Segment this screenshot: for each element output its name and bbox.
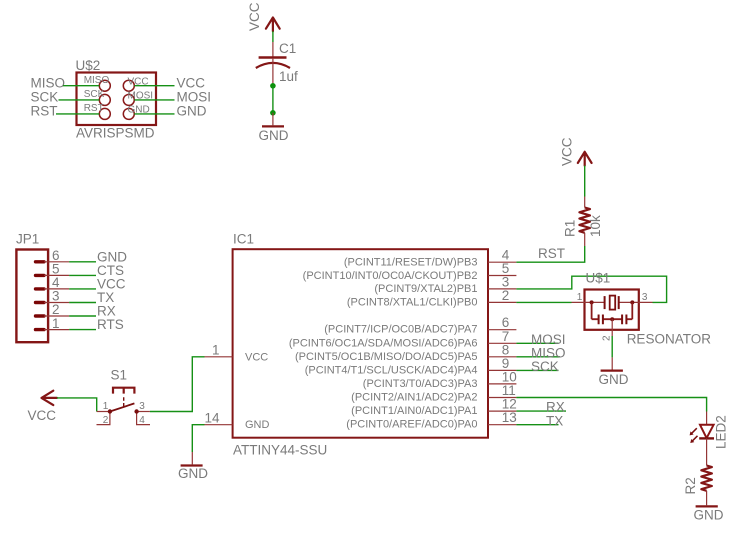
U$2 pin circle SCK	[99, 94, 110, 105]
svg-text:AVRISPSMD: AVRISPSMD	[76, 126, 155, 141]
svg-text:3: 3	[642, 292, 648, 303]
wire VCC to R1	[584, 166, 586, 197]
svg-text:1: 1	[577, 292, 583, 303]
supply symbol VCC (left arrow at S1)	[42, 391, 57, 405]
JP1 pad pin 3	[36, 301, 45, 304]
svg-text:R2: R2	[683, 477, 698, 494]
capacitor C1 top plate	[259, 56, 287, 58]
JP1 pin line 3	[44, 302, 69, 304]
IC1 pin 10 stub PA3	[488, 383, 516, 385]
svg-text:TX: TX	[546, 413, 563, 428]
svg-text:(PCINT0/AREF/ADC0)PA0: (PCINT0/AREF/ADC0)PA0	[346, 419, 477, 431]
wire VCC to C1	[272, 31, 274, 42]
svg-text:RST: RST	[84, 103, 104, 114]
JP1 pad pin 5	[36, 274, 45, 277]
junction dot	[270, 83, 276, 89]
svg-text:(PCINT10/INT0/OC0A/CKOUT)PB2: (PCINT10/INT0/OC0A/CKOUT)PB2	[303, 270, 478, 282]
svg-text:RESONATOR: RESONATOR	[627, 332, 712, 347]
JP1 pad pin 6	[36, 260, 45, 263]
wire JP1-1 to RTS	[69, 329, 96, 331]
svg-text:C1: C1	[279, 41, 296, 56]
svg-text:VCC: VCC	[560, 137, 575, 166]
IC1 pin 5 stub PB2	[488, 275, 516, 277]
svg-text:RTS: RTS	[97, 317, 124, 332]
IC1 pin 3 stub PB1	[488, 288, 516, 290]
LED2 pin top	[706, 412, 708, 425]
S1 blade	[110, 403, 134, 411]
svg-text:VCC: VCC	[245, 351, 268, 363]
svg-text:1: 1	[52, 316, 60, 331]
S1 junction dot pin1	[108, 409, 112, 413]
svg-text:SCK: SCK	[31, 90, 59, 105]
resistor R1 pin bottom	[584, 233, 586, 246]
svg-text:(PCINT1/AIN0/ADC1)PA1: (PCINT1/AIN0/ADC1)PA1	[351, 405, 477, 417]
supply symbol VCC (above C1)	[266, 18, 280, 32]
connector U$2 AVRISPSMD box	[77, 73, 157, 126]
LED2 pin bottom	[706, 438, 708, 465]
wire pin13 to TX	[516, 424, 558, 426]
ground symbol GND (below R2)	[696, 505, 718, 507]
S1 pin 2 L stub	[97, 412, 110, 425]
svg-text:U$2: U$2	[76, 58, 101, 73]
ground symbol pin	[272, 113, 274, 126]
wire pin9 to SCK	[516, 369, 558, 371]
capacitor C1 pin bottom	[272, 58, 274, 86]
IC1 pin 4 stub PB3	[488, 261, 516, 263]
svg-text:ATTINY44-SSU: ATTINY44-SSU	[233, 443, 327, 458]
IC1 pin 13 stub PA0	[488, 424, 516, 426]
JP1 pad pin 4	[36, 287, 45, 290]
wire C1 to GND	[272, 86, 274, 113]
wire PB0 to U$1 pin1	[516, 301, 571, 303]
resistor R2 pin bottom	[706, 491, 708, 506]
JP1 pin line 5	[44, 274, 69, 276]
JP1 pad pin 1	[36, 328, 45, 331]
svg-text:GND: GND	[245, 419, 270, 431]
wire pin7 to MOSI	[516, 342, 558, 344]
junction dot	[270, 110, 276, 116]
JP1 pin line 2	[44, 315, 69, 317]
svg-text:4: 4	[139, 415, 145, 426]
U$2 pin circle MISO	[99, 80, 110, 91]
svg-text:U$1: U$1	[586, 271, 611, 286]
ground symbol GND (below C1)	[262, 125, 284, 127]
S1 pin 4 L stub	[137, 412, 150, 425]
wire S1 pin3 to IC1 pin1	[150, 357, 205, 412]
wire JP1-5 to CTS	[69, 274, 96, 276]
wire U$1 pin2 to GND	[611, 336, 613, 357]
S1 pin 1 stub	[97, 411, 110, 413]
U$1 pin 2 line	[611, 319, 613, 336]
svg-text:(PCINT8/XTAL1/CLKI)PB0: (PCINT8/XTAL1/CLKI)PB0	[347, 297, 478, 309]
svg-text:R1: R1	[563, 220, 578, 237]
svg-text:2: 2	[602, 335, 613, 341]
left capacitor leads	[592, 318, 613, 320]
IC1 pin 1 VCC stub	[205, 356, 233, 358]
wire R1 to RST net	[516, 246, 584, 262]
U$2 pin circle RST	[99, 108, 110, 119]
svg-text:(PCINT9/XTAL2)PB1: (PCINT9/XTAL2)PB1	[374, 283, 477, 295]
svg-text:(PCINT7/ICP/OC0B/ADC7)PA7: (PCINT7/ICP/OC0B/ADC7)PA7	[324, 324, 477, 336]
wire RST to U$2	[56, 113, 99, 115]
wire JP1-6 to GND	[69, 261, 96, 263]
left capacitor plates	[599, 315, 603, 325]
wire pin11 to LED2	[516, 398, 706, 412]
LED2 emission arrow 1	[692, 428, 697, 433]
IC1 pin 14 GND stub	[205, 424, 233, 426]
svg-text:14: 14	[204, 411, 220, 426]
svg-text:JP1: JP1	[16, 232, 39, 247]
U$2 pin circle MOSI	[123, 94, 134, 105]
JP1 pin line 4	[44, 288, 69, 290]
resistor R1 zigzag	[579, 208, 590, 233]
svg-text:2: 2	[502, 288, 510, 303]
resistor R2 zigzag	[701, 466, 712, 491]
LED2 triangle	[700, 425, 714, 438]
svg-text:VCC: VCC	[247, 2, 262, 31]
wire U$2 to MOSI	[134, 99, 174, 101]
supply symbol VCC (above R1)	[578, 152, 592, 166]
wire pin8 to MISO	[516, 356, 560, 358]
svg-text:LED2: LED2	[714, 415, 729, 449]
svg-text:IC1: IC1	[233, 232, 254, 247]
S1 junction dot pin3	[134, 409, 138, 413]
junction dot right	[630, 300, 634, 304]
svg-text:GND: GND	[177, 104, 207, 119]
U$2 pin circle GND	[123, 108, 134, 119]
ground symbol pin	[191, 452, 193, 464]
IC1 pin 8 stub PA5	[488, 356, 516, 358]
svg-text:MISO: MISO	[31, 76, 66, 91]
wire SCK to U$2	[59, 99, 100, 101]
U$2 pin circle VCC	[123, 80, 134, 91]
wire U$2 to GND	[134, 113, 174, 115]
wire JP1-4 to VCC	[69, 288, 96, 290]
svg-text:(PCINT5/OC1B/MISO/DO/ADC5)PA5: (PCINT5/OC1B/MISO/DO/ADC5)PA5	[295, 351, 478, 363]
junction dot center	[610, 317, 614, 321]
svg-text:1: 1	[212, 342, 220, 357]
svg-text:2: 2	[103, 415, 109, 426]
svg-text:(PCINT2/AIN1/ADC2)PA2: (PCINT2/AIN1/ADC2)PA2	[351, 392, 477, 404]
right capacitor leads	[612, 318, 632, 320]
resonator U$1 box	[585, 290, 639, 330]
wire IC1 pin14 to GND	[192, 425, 204, 452]
crystal body rect	[610, 296, 616, 310]
right capacitor plates	[622, 315, 626, 325]
S1 pin 3 stub	[137, 411, 150, 413]
wire JP1-2 to RX	[69, 315, 96, 317]
wire pin12 to RX	[516, 410, 566, 412]
LED2 cathode bar	[699, 437, 714, 439]
IC1 pin 11 stub PA2	[488, 397, 516, 399]
connector JP1 box	[16, 250, 48, 343]
IC1 pin 12 stub PA1	[488, 410, 516, 412]
IC1 pin 6 stub PA7	[488, 329, 516, 331]
JP1 pin line 6	[44, 261, 69, 263]
ground symbol GND (below U$1)	[601, 370, 623, 372]
svg-text:GND: GND	[599, 372, 629, 387]
wire JP1-3 to TX	[69, 302, 96, 304]
wire MISO to U$2	[63, 85, 99, 87]
svg-text:(PCINT11/RESET/DW)PB3: (PCINT11/RESET/DW)PB3	[344, 257, 478, 269]
svg-text:(PCINT6/OC1A/SDA/MOSI/ADC6)PA6: (PCINT6/OC1A/SDA/MOSI/ADC6)PA6	[289, 337, 478, 349]
capacitor C1 pin top	[272, 42, 274, 57]
svg-text:GND: GND	[259, 128, 289, 143]
S1 actuator bracket	[113, 388, 134, 394]
svg-text:13: 13	[502, 410, 517, 425]
IC1 pin 2 stub PB0	[488, 301, 516, 303]
IC1 ATTINY44-SSU box	[233, 249, 488, 438]
crystal right plate	[618, 296, 620, 309]
wire PB1 to U$1 pin3	[516, 276, 666, 302]
svg-text:GND: GND	[178, 466, 208, 481]
svg-text:(PCINT4/T1/SCL/USCK/ADC4)PA4: (PCINT4/T1/SCL/USCK/ADC4)PA4	[305, 364, 478, 376]
wire U$2 to VCC	[134, 85, 174, 87]
IC1 pin 9 stub PA4	[488, 369, 516, 371]
right cap drop line	[631, 302, 633, 319]
left cap drop line	[591, 302, 593, 319]
svg-text:VCC: VCC	[177, 76, 206, 91]
svg-text:1: 1	[103, 401, 109, 412]
svg-text:1uf: 1uf	[279, 69, 298, 84]
svg-text:VCC: VCC	[28, 408, 57, 423]
svg-text:3: 3	[139, 401, 145, 412]
JP1 pad pin 2	[36, 314, 45, 317]
svg-text:SCK: SCK	[84, 89, 105, 100]
ground symbol pin	[611, 357, 613, 369]
S1 actuator dashed link	[123, 397, 125, 406]
U$1 pin 3 line	[619, 301, 653, 303]
svg-text:RST: RST	[538, 246, 565, 261]
U$1 pin 1 line	[572, 301, 605, 303]
svg-text:MISO: MISO	[84, 75, 110, 86]
crystal left plate	[604, 296, 606, 309]
junction dot left	[590, 300, 594, 304]
capacitor C1 bottom curved plate	[256, 63, 290, 68]
svg-text:GND: GND	[694, 508, 724, 523]
JP1 pin line 1	[44, 329, 69, 331]
resistor R1 pin top	[584, 197, 586, 208]
LED2 emission arrow 2	[693, 436, 698, 441]
IC1 pin 7 stub PA6	[488, 342, 516, 344]
svg-text:SCK: SCK	[531, 359, 559, 374]
svg-text:S1: S1	[111, 368, 128, 383]
ground symbol GND (pin14)	[181, 464, 203, 466]
svg-text:MOSI: MOSI	[177, 90, 212, 105]
svg-text:(PCINT3/T0/ADC3)PA3: (PCINT3/T0/ADC3)PA3	[363, 378, 478, 390]
svg-text:RST: RST	[31, 104, 58, 119]
svg-text:10k: 10k	[588, 215, 603, 237]
wire VCC to S1 pin1	[57, 398, 97, 412]
